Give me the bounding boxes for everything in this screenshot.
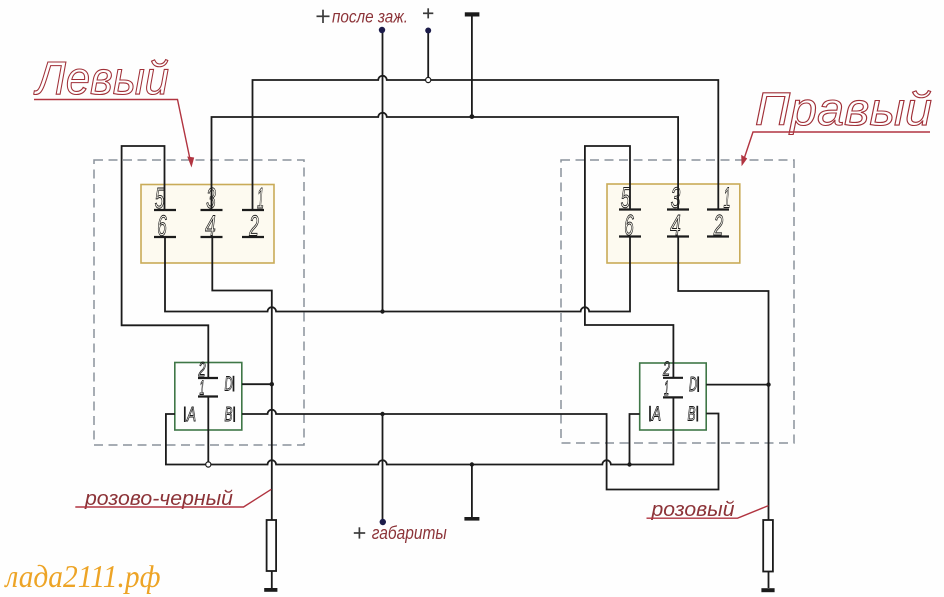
wire gabarity vertical <box>382 414 384 520</box>
junction dot ground/netB-top <box>470 114 475 119</box>
svg-text:1: 1 <box>664 378 669 400</box>
svg-text:1: 1 <box>200 378 205 400</box>
switch S2 right (green box) <box>640 363 707 430</box>
ground bar bottom right <box>761 588 774 592</box>
wire S2 A stub <box>630 414 640 465</box>
connector XP1 pins: ticks row2 <box>154 236 264 238</box>
leader arrow Levyi <box>34 100 191 164</box>
dashed enclosure left turn-signal unit <box>94 160 304 445</box>
wire S2 D stub <box>706 384 768 386</box>
wire net A-top: pin1 left to pin1 right <box>253 76 719 210</box>
ground bar top <box>465 12 480 16</box>
terminal circle S1 pin1 on net465 <box>206 462 211 467</box>
wire right loop pin5 to S2 pin2 <box>585 146 674 378</box>
leader arrow Pravyi <box>743 132 930 163</box>
S2 contact A bar <box>649 406 651 422</box>
plus sign ignition <box>317 10 330 23</box>
connector XP2 pins: ticks row1 <box>619 208 729 210</box>
S2 tick pin2 <box>663 377 683 379</box>
svg-text:A: A <box>186 404 196 426</box>
S2 contact D bar <box>697 376 699 392</box>
svg-text:4: 4 <box>670 210 681 242</box>
junction dot gabarity/netB <box>380 412 384 416</box>
node dot ignition top <box>379 27 385 33</box>
leader pink-black <box>75 489 271 507</box>
wire ignition feed vertical <box>382 31 384 312</box>
svg-text:A: A <box>651 404 661 426</box>
svg-text:2: 2 <box>249 211 259 243</box>
dashed enclosure right turn-signal unit <box>561 160 794 443</box>
junction dot ignition/pin6 <box>380 309 384 313</box>
wire top ground vertical <box>471 17 473 117</box>
wire S1 D stub <box>242 383 272 385</box>
wire mid ground stub <box>471 465 473 518</box>
svg-text:D: D <box>689 374 697 396</box>
svg-text:B: B <box>225 404 233 426</box>
junction dot S2 A / net465 <box>627 462 631 466</box>
connector XP1 pins: ticks row1 <box>154 209 264 211</box>
svg-text:2: 2 <box>713 210 723 242</box>
wire pin6 left to pin6 right <box>165 237 630 312</box>
fuse FU1 <box>267 520 277 571</box>
S1 tick pin1 <box>198 395 218 397</box>
wire pin4 right down to fuse FU2 <box>678 237 768 521</box>
wire net B-top: pin3 left to pin3 right <box>212 113 679 210</box>
wire S1 pin1 down to node <box>207 397 209 462</box>
S1 contact A bar <box>184 407 186 423</box>
svg-text:габариты: габариты <box>372 522 447 543</box>
svg-text:1: 1 <box>724 183 731 215</box>
ground bar bottom left <box>264 588 277 592</box>
svg-text:B: B <box>688 404 696 426</box>
connector XP2 pins: ticks row2 <box>619 235 729 237</box>
svg-text:Левый: Левый <box>33 52 169 104</box>
node dot battery plus top <box>425 28 431 34</box>
terminal circle battery plus on net A-top <box>426 77 431 82</box>
ground bar middle <box>464 517 479 521</box>
svg-text:4: 4 <box>205 211 216 243</box>
leader pink <box>647 506 769 519</box>
junction dot S2 D / pink wire <box>766 382 770 386</box>
node dot gabarity bottom <box>380 519 386 525</box>
S2 tick pin1 <box>663 396 683 398</box>
switch S1 left (green box) <box>175 363 242 431</box>
connector XP1 left (orange box) <box>141 185 274 264</box>
svg-text:после заж.: после заж. <box>332 7 408 27</box>
plus sign gabarity <box>354 527 365 538</box>
wire pin4 left down to fuse FU1 <box>212 237 271 520</box>
junction dot S1 D / pink-black wire <box>270 382 274 386</box>
wire battery plus stub <box>427 31 429 77</box>
wire fuse FU1 to ground <box>271 571 273 588</box>
svg-text:Правый: Правый <box>755 83 932 135</box>
wire net B long: S1 B to S2 B <box>242 410 719 490</box>
S1 contact B bar <box>233 407 235 423</box>
plus sign battery <box>423 8 433 18</box>
wire left loop pin5 to S1 pin2 <box>122 146 209 378</box>
svg-text:D: D <box>225 374 233 396</box>
svg-text:лада2111.рф: лада2111.рф <box>4 558 161 594</box>
S1 tick pin2 <box>198 377 218 379</box>
S1 contact D bar <box>233 376 235 392</box>
wire fuse FU2 to ground <box>768 572 770 589</box>
fuse FU2 <box>763 520 773 572</box>
junction dot ground/net465 <box>470 462 474 466</box>
wire common net y465 <box>166 397 674 464</box>
connector XP2 right (orange box) <box>607 184 740 263</box>
S2 contact B bar <box>696 406 698 422</box>
